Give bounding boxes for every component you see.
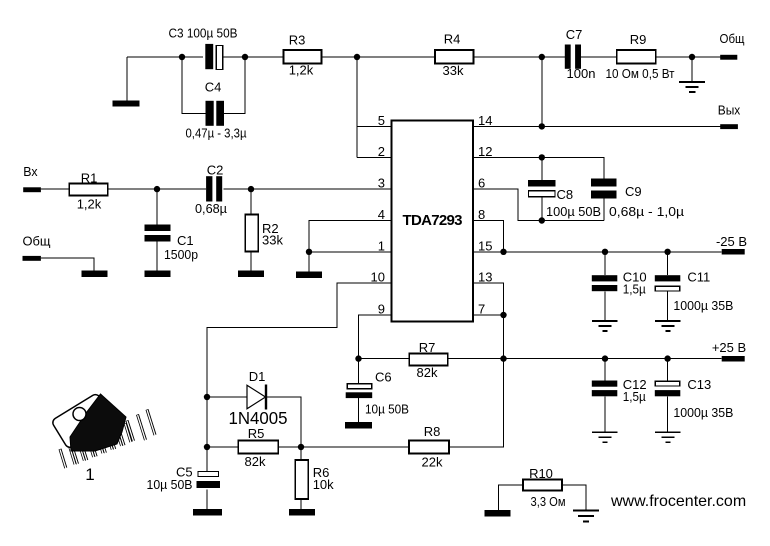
terminal Вх (23, 164, 41, 192)
terminal +25 В (712, 340, 746, 362)
ground (below C1) (145, 271, 171, 278)
capacitor C11 (655, 252, 734, 321)
resistor R3 (283, 33, 321, 78)
wire C7 to R9 (581, 56, 617, 58)
ground (earth below C11) (655, 321, 681, 331)
node junction ground tap (689, 54, 695, 60)
svg-text:4: 4 (378, 207, 385, 222)
wire pin13 down to R8 (449, 283, 504, 447)
svg-text:C2: C2 (207, 163, 224, 178)
svg-text:5: 5 (378, 113, 385, 128)
node junction R5 left (204, 444, 210, 450)
svg-text:D1: D1 (249, 369, 266, 384)
capacitor C12 (592, 359, 647, 432)
ground (top-left, bar style) (113, 57, 140, 107)
wire Вх to R1 (41, 188, 69, 190)
wire R5 to R8 (278, 446, 409, 448)
terminal Общ top right (720, 31, 745, 60)
terminal -25 В (716, 234, 747, 255)
svg-text:TDA7293: TDA7293 (403, 212, 463, 229)
svg-text:100n: 100n (567, 66, 596, 81)
capacitor C3 (169, 26, 238, 70)
svg-text:1: 1 (378, 238, 385, 253)
wire node to R3 (245, 56, 283, 58)
capacitor C5 (147, 447, 221, 509)
capacitor C1 (145, 189, 199, 270)
svg-text:15: 15 (478, 238, 492, 253)
svg-text:33k: 33k (262, 233, 283, 248)
wire Общ to ground (41, 258, 94, 271)
svg-text:100µ 50В: 100µ 50В (546, 204, 601, 219)
svg-text:R5: R5 (248, 426, 265, 441)
svg-text:R9: R9 (630, 32, 647, 47)
capacitor C7 (565, 27, 596, 81)
svg-text:R4: R4 (444, 32, 461, 47)
node junction C3 left (179, 54, 185, 60)
svg-text:1: 1 (85, 465, 94, 484)
capacitor C10 (592, 252, 647, 321)
hole (73, 408, 86, 421)
wire R1 to C2 (108, 188, 206, 190)
op-amp U1 TDA7293 (392, 120, 473, 321)
svg-text:C4: C4 (205, 80, 222, 95)
svg-text:C6: C6 (375, 370, 392, 385)
ground (earth, R10 right) (573, 511, 599, 522)
svg-text:C3 100µ 50В: C3 100µ 50В (169, 26, 238, 41)
svg-text:0,68µ: 0,68µ (195, 201, 227, 216)
wire pin7 (473, 314, 504, 316)
resistor R8 (409, 424, 449, 470)
wire R5 left (207, 446, 238, 448)
svg-text:1,5µ: 1,5µ (623, 282, 646, 297)
wire +25 rail (504, 358, 722, 360)
svg-text:C9: C9 (625, 184, 642, 199)
terminal Вых (718, 103, 741, 130)
svg-text:1N4005: 1N4005 (229, 408, 288, 428)
node junction C8 top (539, 154, 545, 160)
back pins row (71, 410, 155, 465)
svg-text:Общ: Общ (720, 31, 745, 46)
wire pin1 (309, 251, 392, 253)
svg-text:82k: 82k (417, 365, 438, 380)
resistor R4 (435, 32, 474, 79)
wire C2 to pin3 (224, 188, 392, 190)
wire C4 branch (182, 57, 245, 114)
ground (below R2) (238, 271, 264, 278)
ground (below R6) (289, 509, 315, 516)
node junction R7 right (500, 355, 506, 361)
diode D1 (207, 369, 301, 447)
svg-text:14: 14 (478, 113, 492, 128)
resistor R6 (295, 447, 334, 509)
svg-text:2: 2 (378, 144, 385, 159)
svg-text:10: 10 (371, 270, 385, 285)
wire top rail left (127, 56, 203, 58)
svg-text:R3: R3 (289, 33, 306, 48)
resistor R1 (69, 171, 108, 212)
wire pin10 to D1 anode (207, 283, 392, 397)
front pins row (60, 423, 131, 468)
capacitor C9 (591, 179, 685, 220)
wire junction down to pin2 (356, 57, 358, 157)
svg-text:1,5µ: 1,5µ (623, 389, 646, 404)
ground (below pin4/pin1) (296, 272, 322, 279)
svg-text:1,2k: 1,2k (77, 197, 102, 212)
ground (earth below C10) (592, 321, 618, 331)
svg-text:3,3 Ом: 3,3 Ом (531, 494, 566, 509)
wire R10 right (562, 485, 586, 510)
wire pin15 to -25V (473, 251, 722, 253)
svg-text:Вх: Вх (23, 164, 38, 179)
svg-text:www.frocenter.com: www.frocenter.com (610, 493, 746, 510)
capacitor C6 (346, 359, 409, 422)
wire R4 to C7 (473, 56, 564, 58)
IC package illustration (Multiwatt15) (51, 393, 155, 469)
svg-text:22k: 22k (422, 455, 443, 470)
svg-text:R1: R1 (81, 171, 98, 186)
capacitor C8 (528, 157, 601, 220)
ground (earth symbol top right) (679, 57, 705, 92)
svg-text:10 Ом 0,5 Вт: 10 Ом 0,5 Вт (606, 66, 675, 81)
svg-text:Вых: Вых (718, 103, 741, 118)
wire pin6 loop to C9 (473, 189, 604, 220)
capacitor C2 (195, 163, 227, 217)
wire pin14 to Вых terminal (473, 125, 721, 127)
svg-text:13: 13 (478, 270, 492, 285)
node junction C13 (664, 355, 670, 361)
capacitor C4 (186, 80, 247, 141)
node junction D1 anode (204, 394, 210, 400)
svg-text:C1: C1 (177, 233, 194, 248)
wire pin4 (309, 220, 392, 271)
svg-text:3: 3 (378, 176, 385, 191)
ground (bar, R10 left) (485, 510, 511, 517)
svg-text:10k: 10k (313, 477, 334, 492)
node junction C1 tap (154, 186, 160, 192)
node junction C10 (602, 249, 608, 255)
svg-text:9: 9 (378, 302, 385, 317)
svg-text:33k: 33k (443, 63, 464, 78)
wire rail down to out (541, 57, 543, 126)
svg-text:C8: C8 (557, 187, 574, 202)
svg-text:-25 В: -25 В (716, 234, 747, 249)
wire R9 to terminal (656, 56, 721, 58)
resistor R2 (245, 189, 283, 270)
svg-text:10µ 50В: 10µ 50В (147, 477, 193, 492)
wire C9 bottom (603, 199, 605, 221)
tab (51, 393, 114, 449)
ground (below Общ wire) (82, 271, 108, 278)
svg-text:1500p: 1500p (164, 247, 198, 262)
resistor R7 (409, 340, 447, 380)
wire C3 to node (223, 56, 245, 58)
svg-text:C7: C7 (566, 27, 583, 42)
svg-text:C11: C11 (687, 270, 710, 285)
node junction R7/C6 (355, 355, 361, 361)
capacitor C13 (655, 359, 734, 432)
svg-text:7: 7 (478, 302, 485, 317)
wire R7 left (359, 358, 410, 360)
wire pin2 (357, 156, 392, 158)
svg-text:0,68µ - 1,0µ: 0,68µ - 1,0µ (609, 204, 685, 219)
svg-text:1000µ 35В: 1000µ 35В (673, 405, 733, 420)
node junction C8 bottom (539, 217, 545, 223)
svg-text:C13: C13 (687, 377, 711, 392)
svg-text:R10: R10 (529, 466, 553, 481)
resistor R10 (499, 466, 566, 510)
wire pin8 down (473, 220, 504, 252)
svg-text:10µ 50В: 10µ 50В (365, 402, 409, 417)
terminal Общ left (23, 234, 51, 261)
svg-text:Общ: Общ (23, 234, 51, 249)
node junction C11 (664, 249, 670, 255)
wire R3 to R4 (321, 56, 435, 58)
body (70, 394, 126, 451)
node junction rail/pins 5-2 (354, 54, 360, 60)
svg-text:1000µ 35В: 1000µ 35В (673, 298, 733, 313)
svg-text:6: 6 (478, 176, 485, 191)
resistor R9 (606, 32, 675, 81)
node junction R5/R6/D1 (298, 444, 304, 450)
svg-text:R7: R7 (419, 340, 436, 355)
svg-text:12: 12 (478, 144, 492, 159)
wire pin10 branch down to R5 (206, 397, 208, 447)
svg-text:0,47µ - 3,3µ: 0,47µ - 3,3µ (186, 126, 247, 141)
node junction R2 tap (248, 186, 254, 192)
ground (below C5) (193, 509, 222, 516)
ground (earth below C12) (592, 432, 618, 442)
resistor R5 (238, 426, 278, 469)
node junction out (539, 123, 545, 129)
wire pin5 (357, 125, 392, 127)
wire pin12 to C9 top (473, 157, 604, 178)
svg-text:82k: 82k (245, 454, 266, 469)
wire pin9 to R7 node (359, 315, 392, 359)
svg-text:R8: R8 (424, 424, 441, 439)
node junction pin8/15 (500, 249, 506, 255)
svg-text:1,2k: 1,2k (289, 63, 314, 78)
svg-text:8: 8 (478, 207, 485, 222)
node junction pin1/pin4 (306, 249, 312, 255)
node junction pin7 (500, 312, 506, 318)
node junction rail/out (539, 54, 545, 60)
ground (earth below C13) (655, 432, 681, 442)
ground (below C6) (345, 422, 372, 429)
svg-text:+25 В: +25 В (712, 340, 746, 355)
node junction C3 right (242, 54, 248, 60)
node junction C12 (602, 355, 608, 361)
wire R7 right (449, 358, 504, 360)
